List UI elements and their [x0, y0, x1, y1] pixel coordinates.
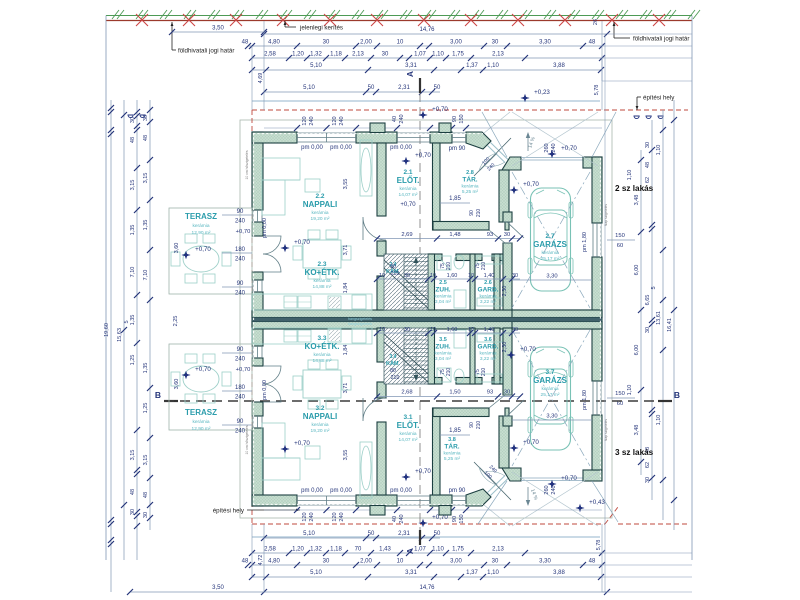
- svg-text:kerámia: kerámia: [192, 223, 209, 229]
- svg-text:30: 30: [492, 559, 499, 565]
- svg-text:1,20: 1,20: [292, 52, 304, 58]
- svg-text:240: 240: [309, 512, 315, 521]
- property boundary left: [105, 16, 107, 561]
- kitchen counter top unit: [252, 294, 372, 310]
- svg-text:kerámia: kerámia: [479, 351, 496, 357]
- svg-text:kerámia: kerámia: [311, 210, 328, 216]
- svg-text:2.7: 2.7: [545, 233, 554, 240]
- window dim line above top wall: [264, 127, 602, 129]
- door garage left wall top: [503, 221, 512, 223]
- door nappali/elot bottom: [363, 398, 386, 421]
- tar bottom wall stub: [505, 222, 509, 231]
- svg-text:62: 62: [645, 462, 651, 468]
- party wall lower leaf garage: [512, 322, 602, 330]
- svg-text:240: 240: [399, 114, 405, 123]
- svg-text:240: 240: [235, 219, 246, 225]
- svg-text:3,00: 3,00: [450, 40, 462, 46]
- kitchen counter bottom unit: [252, 328, 372, 344]
- svg-text:3,71: 3,71: [343, 383, 349, 394]
- svg-text:80: 80: [390, 264, 396, 270]
- survey glyphs right: [634, 116, 663, 119]
- svg-text:14,07 m²: 14,07 m²: [399, 437, 418, 443]
- svg-text:B: B: [674, 390, 680, 400]
- entry door band top (diagonal glazing): [491, 143, 509, 160]
- exterior left wall seg y292-346: [252, 292, 263, 346]
- interior dims below party wall: [377, 332, 520, 334]
- svg-text:3,15: 3,15: [130, 450, 136, 461]
- wall nappali/elot lower a: [377, 241, 386, 256]
- svg-text:3,30: 3,30: [546, 274, 557, 280]
- sofa nappali bottom: [262, 458, 300, 480]
- roof projection lines below bottom carport: [512, 472, 598, 526]
- gard wardrobe bottom: [477, 374, 502, 382]
- svg-text:pm 0,00: pm 0,00: [330, 488, 352, 494]
- svg-text:3,15: 3,15: [143, 455, 149, 466]
- svg-text:3.6: 3.6: [484, 337, 492, 343]
- wall elot/tar: [433, 143, 441, 230]
- svg-text:19,60: 19,60: [104, 323, 110, 337]
- svg-text:90: 90: [237, 419, 244, 425]
- svg-text:2,31: 2,31: [398, 531, 410, 537]
- svg-text:jelenlegi kerítés: jelenlegi kerítés: [299, 25, 343, 32]
- window labels left wall bottom unit: [222, 352, 252, 354]
- right dimension chains: [640, 150, 642, 475]
- svg-text:2.1: 2.1: [403, 169, 412, 176]
- interior dims bottom unit: [377, 396, 520, 398]
- dining table bottom: [303, 370, 341, 398]
- zuh fixtures top: [437, 256, 451, 270]
- svg-text:1,48: 1,48: [449, 232, 460, 238]
- exterior left wall seg y272-280: [252, 272, 263, 280]
- svg-text:6,00: 6,00: [634, 345, 640, 356]
- garage window dim top: [607, 239, 635, 241]
- svg-text:A: A: [405, 71, 415, 77]
- svg-text:kerámia: kerámia: [313, 352, 330, 358]
- carport lintel bottom: [521, 480, 583, 482]
- svg-text:földhivatali jogi határ: földhivatali jogi határ: [633, 36, 689, 43]
- svg-text:+0,70: +0,70: [415, 468, 431, 475]
- svg-text:1,10: 1,10: [487, 63, 499, 69]
- svg-text:48: 48: [242, 40, 249, 46]
- garage left wall bottom (3): [503, 328, 512, 395]
- garage bottom corner wall: [583, 470, 602, 481]
- svg-text:30: 30: [404, 273, 410, 279]
- label foldhivatali jogi hatar (left): [171, 22, 173, 50]
- extension lines top: [263, 21, 265, 110]
- svg-text:3.5: 3.5: [439, 337, 447, 343]
- svg-text:2,30: 2,30: [502, 286, 508, 297]
- svg-text:60: 60: [617, 401, 623, 407]
- left dimension chains: [110, 100, 112, 592]
- tar top wall (3): [433, 408, 489, 417]
- svg-text:TERASZ: TERASZ: [185, 212, 217, 221]
- svg-text:kerámia: kerámia: [311, 422, 328, 428]
- wall elot/tar (3): [433, 408, 441, 495]
- zuh/gard wall: [470, 254, 475, 310]
- svg-text:2,00: 2,00: [360, 559, 372, 565]
- svg-text:+0,70: +0,70: [561, 475, 577, 482]
- svg-text:GARÁZS: GARÁZS: [533, 376, 567, 385]
- svg-text:180: 180: [235, 385, 246, 391]
- svg-text:120: 120: [302, 116, 308, 125]
- eaves outline: [240, 120, 612, 518]
- right extension line x605: [604, 34, 606, 592]
- svg-text:240: 240: [235, 395, 246, 401]
- svg-text:1,10: 1,10: [656, 415, 662, 426]
- svg-text:2,13: 2,13: [352, 52, 364, 58]
- svg-text:5,25 m²: 5,25 m²: [444, 456, 461, 462]
- svg-text:pm 0,00: pm 0,00: [262, 218, 268, 238]
- dim row 4 top: [252, 69, 602, 71]
- svg-text:1,37: 1,37: [466, 570, 478, 576]
- garage right wall seg y415-470: [592, 415, 602, 470]
- svg-text:14,07 m²: 14,07 m²: [399, 192, 418, 198]
- svg-text:3 sz lakás: 3 sz lakás: [615, 448, 654, 457]
- exterior top wall seg x430-452: [430, 132, 452, 143]
- exterior left wall seg y222-236: [252, 222, 263, 236]
- svg-text:30: 30: [512, 327, 518, 333]
- svg-text:5,10: 5,10: [303, 531, 315, 537]
- svg-text:62: 62: [645, 177, 651, 183]
- svg-text:ZUH.: ZUH.: [435, 344, 450, 351]
- stairs unit 2: [384, 254, 428, 310]
- zuh/gard north wall b: [456, 254, 482, 261]
- interior dims row above party wall: [377, 278, 520, 280]
- svg-text:3,30: 3,30: [539, 40, 551, 46]
- svg-text:48: 48: [143, 492, 149, 498]
- svg-text:30: 30: [645, 327, 651, 333]
- french door terrace bottom unit: [263, 366, 281, 384]
- svg-text:3,15: 3,15: [143, 173, 149, 184]
- svg-text:kerámia: kerámia: [443, 451, 460, 457]
- roof X bottom carport: [512, 330, 590, 466]
- svg-text:10: 10: [379, 273, 385, 279]
- interior dims top unit: [377, 238, 520, 240]
- svg-text:KO+ÉTK.: KO+ÉTK.: [305, 342, 340, 351]
- svg-text:120: 120: [332, 116, 338, 125]
- svg-text:30: 30: [382, 52, 389, 58]
- svg-text:2,68: 2,68: [401, 390, 412, 396]
- svg-text:+0,70: +0,70: [294, 440, 310, 447]
- svg-text:150: 150: [459, 514, 465, 523]
- dim row 3 top: [252, 57, 602, 59]
- svg-text:14,88 m²: 14,88 m²: [313, 358, 332, 364]
- door garage left wall bottom: [503, 415, 512, 417]
- svg-text:KO+ÉTK.: KO+ÉTK.: [305, 268, 340, 277]
- svg-text:30: 30: [143, 512, 149, 518]
- tar right wall: [499, 170, 509, 222]
- svg-text:+0,70: +0,70: [523, 181, 539, 188]
- exterior left wall seg y402-416: [252, 402, 263, 416]
- chimney bottom 2: [439, 506, 451, 516]
- svg-text:+0,70: +0,70: [415, 152, 431, 159]
- stair/zuh wall (3): [428, 328, 435, 384]
- chimney bottom 1: [370, 506, 385, 516]
- svg-text:1,10: 1,10: [627, 385, 633, 396]
- svg-text:NAPPALI: NAPPALI: [303, 412, 338, 421]
- entry door on chamfer top: [479, 153, 497, 171]
- svg-text:+0,70: +0,70: [523, 439, 539, 446]
- garage window dim bottom: [607, 397, 635, 399]
- svg-text:14,88 m²: 14,88 m²: [313, 284, 332, 290]
- svg-text:3,15: 3,15: [130, 180, 136, 191]
- svg-text:19,20 m²: 19,20 m²: [311, 428, 330, 434]
- svg-text:+0,43: +0,43: [589, 499, 605, 506]
- property boundary right: [691, 16, 693, 561]
- tar top wall stub (3): [505, 408, 509, 417]
- gard right wall (3): [494, 328, 500, 384]
- svg-text:1,60: 1,60: [447, 327, 458, 333]
- svg-text:6,65: 6,65: [645, 295, 651, 306]
- exterior top wall seg x252-297: [252, 132, 297, 143]
- svg-text:260: 260: [544, 485, 550, 494]
- wall nappali/elot lower b: [377, 276, 386, 310]
- cabinet nappali top: [360, 140, 372, 196]
- svg-text:1,10: 1,10: [656, 145, 662, 156]
- svg-text:50: 50: [434, 531, 441, 537]
- svg-text:2,13: 2,13: [492, 52, 504, 58]
- garage right wall seg y157-223: [592, 157, 602, 223]
- svg-text:15,63: 15,63: [117, 328, 123, 342]
- garage left wall top (3): [503, 416, 512, 426]
- svg-text:GARD.: GARD.: [478, 287, 499, 294]
- svg-text:+0,70: +0,70: [294, 239, 310, 246]
- zuh/gard wall (3): [470, 328, 475, 384]
- svg-text:kerámia: kerámia: [541, 250, 558, 256]
- exterior left wall seg y132-210: [252, 132, 263, 210]
- svg-text:3,50: 3,50: [212, 26, 224, 32]
- svg-text:10: 10: [430, 327, 436, 333]
- svg-text:6,00: 6,00: [634, 265, 640, 276]
- svg-text:+0,70: +0,70: [520, 346, 536, 353]
- svg-text:pm 90: pm 90: [449, 488, 466, 494]
- wall nappali/elot lower (3)a: [377, 328, 386, 362]
- svg-text:kerámia: kerámia: [434, 294, 451, 300]
- dim row 3,50 top left: [172, 31, 264, 33]
- svg-text:3,30: 3,30: [539, 559, 551, 565]
- svg-text:építési hely: építési hely: [643, 95, 675, 102]
- party wall upper leaf: [252, 310, 602, 318]
- svg-text:120: 120: [332, 512, 338, 521]
- exterior top wall seg x356-397: [356, 132, 397, 143]
- svg-text:1,40: 1,40: [484, 273, 495, 279]
- gard north wall c: [492, 254, 509, 261]
- svg-text:1,10: 1,10: [627, 170, 633, 181]
- svg-text:30: 30: [323, 559, 330, 565]
- svg-text:19,20 m²: 19,20 m²: [311, 216, 330, 222]
- svg-text:150: 150: [615, 391, 625, 397]
- svg-text:3,48: 3,48: [634, 195, 640, 206]
- svg-text:10: 10: [397, 559, 404, 565]
- label epitesi hely right: [636, 97, 638, 110]
- svg-text:1,43: 1,43: [379, 547, 391, 553]
- svg-text:25,17 m²: 25,17 m²: [541, 256, 560, 262]
- svg-text:90: 90: [452, 116, 458, 122]
- svg-text:48: 48: [645, 162, 651, 168]
- svg-text:3,88: 3,88: [553, 63, 565, 69]
- svg-text:1,40: 1,40: [484, 327, 495, 333]
- gard right wall: [494, 254, 500, 310]
- svg-text:4,80: 4,80: [268, 559, 280, 565]
- svg-text:10: 10: [468, 273, 474, 279]
- svg-text:1,18: 1,18: [330, 547, 342, 553]
- svg-text:+0,70: +0,70: [400, 202, 416, 208]
- svg-text:210: 210: [481, 368, 487, 377]
- svg-text:+0,70: +0,70: [195, 366, 211, 373]
- svg-text:25,17 m²: 25,17 m²: [541, 392, 560, 398]
- svg-text:3.1: 3.1: [403, 414, 412, 421]
- dim row 14,76 top: [264, 33, 607, 35]
- svg-text:7,10: 7,10: [130, 267, 136, 278]
- svg-text:2.8: 2.8: [466, 170, 474, 176]
- window labels left wall top unit: [222, 214, 252, 216]
- svg-text:5,10: 5,10: [303, 85, 315, 91]
- party wall lower leaf: [252, 322, 602, 330]
- terrace bottom box: [169, 344, 252, 430]
- svg-text:1,18: 1,18: [330, 52, 342, 58]
- svg-text:30: 30: [512, 273, 518, 279]
- svg-text:48: 48: [143, 135, 149, 141]
- svg-text:3,22 m²: 3,22 m²: [480, 356, 497, 362]
- terrace top table: [183, 246, 219, 272]
- car in garage unit 3: [531, 347, 571, 450]
- garage left wall bottom: [503, 243, 512, 310]
- windows left wall: [252, 210, 254, 222]
- svg-text:210: 210: [446, 262, 452, 271]
- windows bottom wall: [297, 495, 356, 497]
- svg-text:kerámia: kerámia: [192, 419, 209, 425]
- svg-text:10 cm hőszigetelés: 10 cm hőszigetelés: [245, 150, 249, 179]
- svg-text:30: 30: [404, 327, 410, 333]
- dim rows bottom: [264, 591, 607, 593]
- svg-text:hangszigetelés: hangszigetelés: [348, 322, 372, 326]
- terrace bottom table: [183, 366, 219, 392]
- svg-text:pm 0,00: pm 0,00: [301, 488, 323, 494]
- windows garage right wall: [592, 223, 594, 257]
- svg-text:kerámia: kerámia: [399, 431, 416, 437]
- svg-text:48: 48: [130, 489, 136, 495]
- svg-text:90: 90: [469, 422, 475, 428]
- svg-text:10: 10: [430, 273, 436, 279]
- window dim line below bottom wall: [264, 509, 602, 511]
- driveway splay bottom: [478, 481, 507, 524]
- svg-text:30: 30: [130, 509, 136, 515]
- entry door on chamfer bottom: [479, 467, 497, 485]
- zuh/gard south wall b (3): [456, 378, 482, 385]
- chamfer wall top-right (entry): [466, 132, 491, 149]
- svg-text:kerámia: kerámia: [434, 351, 451, 357]
- svg-text:93: 93: [487, 232, 493, 238]
- svg-text:1,75: 1,75: [452, 547, 464, 553]
- svg-text:TERASZ: TERASZ: [185, 408, 217, 417]
- svg-text:4,69: 4,69: [258, 73, 264, 84]
- garage top corner wall: [583, 157, 602, 168]
- roof X top carport: [512, 172, 590, 308]
- zuh north wall a: [428, 254, 442, 261]
- svg-text:1,35: 1,35: [130, 225, 136, 236]
- door nappali/elot top: [363, 217, 386, 240]
- svg-text:2.2: 2.2: [315, 193, 324, 200]
- svg-text:240: 240: [235, 257, 246, 263]
- exterior bottom wall seg x252-297: [252, 495, 297, 506]
- svg-text:TÁR.: TÁR.: [444, 442, 459, 451]
- terrace top box: [169, 208, 252, 294]
- section line A: [419, 78, 421, 93]
- svg-text:90: 90: [469, 210, 475, 216]
- svg-text:260: 260: [544, 143, 550, 152]
- gard wardrobe top: [477, 256, 502, 264]
- exterior bottom wall seg x430-452: [430, 495, 452, 506]
- exterior left wall seg y428-506: [252, 428, 263, 506]
- svg-text:50: 50: [434, 85, 441, 91]
- zuh fixtures bottom: [437, 368, 451, 382]
- svg-text:pm 0,00: pm 0,00: [262, 380, 268, 400]
- svg-text:7,10: 7,10: [143, 270, 149, 281]
- svg-text:1,32: 1,32: [310, 52, 322, 58]
- svg-text:30: 30: [130, 117, 136, 123]
- svg-text:48: 48: [130, 137, 136, 143]
- svg-text:1,60: 1,60: [447, 273, 458, 279]
- gard south wall c (3): [492, 378, 509, 385]
- svg-text:TÁR.: TÁR.: [462, 175, 477, 184]
- svg-text:240: 240: [339, 116, 345, 125]
- svg-text:2,30: 2,30: [502, 342, 508, 353]
- svg-text:2.5: 2.5: [439, 280, 447, 286]
- svg-text:3,30: 3,30: [546, 414, 557, 420]
- svg-text:5,25 m²: 5,25 m²: [462, 189, 479, 195]
- fence X posts: [136, 14, 665, 26]
- svg-text:1,75: 1,75: [452, 52, 464, 58]
- svg-text:240: 240: [551, 143, 557, 152]
- svg-text:3,88: 3,88: [553, 570, 565, 576]
- party wall upper leaf garage: [512, 310, 602, 318]
- svg-text:240: 240: [399, 514, 405, 523]
- svg-text:30: 30: [504, 232, 510, 238]
- tar bottom wall: [433, 222, 489, 231]
- svg-text:5,10: 5,10: [310, 63, 322, 69]
- svg-text:3,00: 3,00: [450, 559, 462, 565]
- chamfer wall bottom-right (entry): [466, 489, 491, 506]
- roof slope arrow bottom: [527, 487, 529, 504]
- svg-text:26: 26: [593, 19, 599, 25]
- wall nappali/elot upper (3): [377, 422, 386, 495]
- svg-text:1,50: 1,50: [449, 390, 460, 396]
- svg-text:3.3: 3.3: [317, 335, 326, 342]
- wall nappali/elot lower (3)b: [377, 382, 386, 398]
- garage width dim: [512, 279, 592, 281]
- svg-text:GARÁZS: GARÁZS: [533, 240, 567, 249]
- svg-text:4,80: 4,80: [268, 40, 280, 46]
- svg-text:építési hely: építési hely: [213, 508, 245, 515]
- svg-text:ELŐT.: ELŐT.: [397, 176, 420, 185]
- svg-text:+0,23: +0,23: [534, 89, 550, 96]
- svg-text:pm 90: pm 90: [449, 146, 466, 152]
- dim row 5 top partial: [264, 91, 440, 93]
- survey glyphs left: [128, 115, 145, 118]
- epitesi hely dashed rect: [252, 109, 688, 111]
- svg-text:1,10: 1,10: [487, 570, 499, 576]
- svg-text:3,04 m²: 3,04 m²: [435, 299, 452, 305]
- svg-text:2,13: 2,13: [492, 547, 504, 553]
- svg-text:1,85: 1,85: [449, 428, 461, 434]
- svg-text:48: 48: [242, 559, 249, 565]
- svg-text:3.4: 3.4: [390, 354, 397, 360]
- garage left wall top: [503, 212, 512, 222]
- svg-text:30: 30: [143, 115, 149, 121]
- svg-text:240: 240: [309, 116, 315, 125]
- svg-text:kerámia: kerámia: [479, 294, 496, 300]
- wall piece right of bottom chamfer: [502, 468, 521, 481]
